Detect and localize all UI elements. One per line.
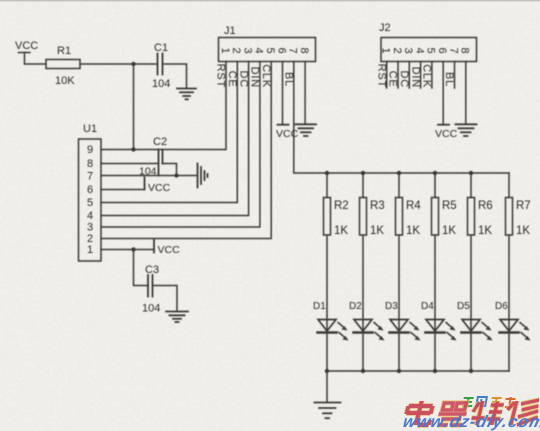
svg-text:9: 9 <box>87 144 93 156</box>
svg-text:C2: C2 <box>153 136 167 148</box>
ground (U1 pin 7, right-facing) <box>198 164 208 188</box>
watermark logo (bottom right) <box>401 397 540 431</box>
resistor R2 <box>324 173 349 237</box>
wire J2 pin 2 stub <box>397 62 399 89</box>
svg-text:5: 5 <box>425 47 437 53</box>
power VCC (J1 pin 6) <box>276 125 299 140</box>
svg-text:R7: R7 <box>516 200 531 212</box>
LED D4 <box>421 235 457 371</box>
svg-text:D1: D1 <box>313 301 326 312</box>
svg-text:CLK: CLK <box>421 64 433 88</box>
wire bottom rail to ground <box>326 371 328 402</box>
node C2/ground junction <box>174 173 178 177</box>
svg-text:4: 4 <box>87 210 93 222</box>
svg-text:104: 104 <box>152 78 170 90</box>
svg-text:1: 1 <box>219 47 231 53</box>
svg-text:8: 8 <box>459 47 471 53</box>
svg-text:R1: R1 <box>57 45 71 57</box>
svg-text:4: 4 <box>253 47 265 53</box>
node LED rail junctions <box>325 171 473 175</box>
LED D6 <box>495 235 531 371</box>
svg-text:R4: R4 <box>406 200 421 212</box>
svg-text:D2: D2 <box>349 301 362 312</box>
svg-text:VCC: VCC <box>15 40 38 52</box>
svg-text:VCC: VCC <box>158 244 181 256</box>
resistor R1 <box>46 45 80 87</box>
resistor R3 <box>360 173 385 237</box>
svg-text:DIN: DIN <box>249 67 261 88</box>
wire U1 pin 7 to ground <box>101 175 198 177</box>
svg-text:3: 3 <box>402 47 414 53</box>
wire J2.8 to ground <box>465 62 467 125</box>
wire C2 jog to U1 pin 7 line <box>163 164 177 176</box>
svg-text:R3: R3 <box>370 200 385 212</box>
wire J2.6 to VCC <box>442 62 444 125</box>
wire J1.4 DIN down to U1 pin 3 <box>101 62 260 228</box>
LED D5 <box>457 235 493 371</box>
wire U1 pin 1 to VCC <box>101 249 154 251</box>
wire J1.1 RST down to U1 pin 9 <box>101 62 226 150</box>
svg-text:R2: R2 <box>334 200 349 212</box>
connector J2 <box>375 22 476 88</box>
LED D3 <box>385 235 421 371</box>
resistor R5 <box>432 173 457 237</box>
svg-text:104: 104 <box>142 303 160 315</box>
svg-text:D6: D6 <box>495 301 508 312</box>
wire J2 pin 1 stub <box>386 62 388 89</box>
svg-text:3: 3 <box>241 47 253 53</box>
svg-text:5: 5 <box>87 197 93 209</box>
svg-text:6: 6 <box>436 47 448 53</box>
svg-text:DC: DC <box>398 71 410 89</box>
wire R1 to C1 <box>80 63 158 65</box>
wire U1 pin 1 down to C3 <box>134 250 149 286</box>
svg-text:1K: 1K <box>516 225 530 237</box>
svg-text:J1: J1 <box>224 25 236 37</box>
svg-text:BL: BL <box>283 72 295 87</box>
svg-text:CLK: CLK <box>260 64 272 88</box>
watermark small colored characters <box>462 397 516 407</box>
wire VCC to R1 <box>25 63 47 65</box>
svg-text:DC: DC <box>237 71 249 89</box>
resistor R4 <box>396 173 422 237</box>
svg-text:J2: J2 <box>379 22 391 34</box>
svg-text:6: 6 <box>275 47 287 53</box>
svg-text:CE: CE <box>387 71 399 88</box>
svg-text:1: 1 <box>380 47 392 53</box>
svg-text:D5: D5 <box>457 301 470 312</box>
ground (C3) <box>166 312 188 323</box>
svg-text:CE: CE <box>226 71 238 88</box>
wire J1.2 CE down to U1 pin 5 <box>101 62 237 203</box>
svg-text:2: 2 <box>391 47 403 53</box>
wire junction down to U1 pin 9 <box>133 64 135 150</box>
wire U1 pin 8 <box>101 163 159 165</box>
power VCC (U1 pin 1) <box>154 240 180 256</box>
IC header U1 <box>79 123 102 261</box>
wire J2 pin 4 stub <box>420 62 422 89</box>
connector J1 <box>215 25 316 88</box>
node R1/C1 junction <box>131 62 135 66</box>
wire J1.3 DC down to U1 pin 4 <box>101 62 249 216</box>
power VCC (top-left) <box>15 40 38 64</box>
wire C1 to ground <box>163 64 187 88</box>
svg-text:C1: C1 <box>154 42 168 54</box>
node bottom rail junctions <box>325 369 473 373</box>
svg-text:6: 6 <box>87 184 93 196</box>
wire J2 pin 7 stub <box>454 62 456 89</box>
svg-text:1K: 1K <box>370 225 384 237</box>
wire LED bottom rail <box>327 370 509 372</box>
svg-text:D3: D3 <box>385 301 398 312</box>
wire J2 pin 5 stub <box>431 62 433 89</box>
svg-text:7: 7 <box>447 47 459 53</box>
wire J2 pin 3 stub <box>408 62 410 89</box>
LED D1 <box>313 235 349 371</box>
wire C3 to ground <box>153 286 178 312</box>
svg-text:4: 4 <box>413 47 425 53</box>
resistor R7 <box>506 173 531 237</box>
svg-text:VCC: VCC <box>276 128 299 140</box>
capacitor C1 <box>152 42 170 90</box>
ground (J1 pin 8) <box>296 124 317 136</box>
svg-text:R5: R5 <box>442 200 457 212</box>
ground (C1) <box>177 89 196 100</box>
svg-text:RST: RST <box>215 64 227 88</box>
svg-text:1: 1 <box>87 244 93 256</box>
svg-text:2: 2 <box>230 47 242 53</box>
node U1 pin 1 junction <box>131 247 135 251</box>
svg-text:www.dz-diy.com: www.dz-diy.com <box>401 412 540 431</box>
svg-text:1K: 1K <box>478 225 492 237</box>
svg-text:1K: 1K <box>442 225 456 237</box>
wire J1.5 CLK down to U1 pin 2 <box>101 62 271 239</box>
svg-text:VCC: VCC <box>148 182 171 194</box>
svg-text:5: 5 <box>264 47 276 53</box>
svg-text:8: 8 <box>87 158 93 170</box>
watermark big red characters <box>404 400 540 425</box>
wire J1.8 to ground <box>304 62 306 125</box>
power VCC (J2 pin 6) <box>435 125 458 140</box>
capacitor C3 <box>142 264 160 315</box>
ground (J2 pin 8) <box>456 124 477 136</box>
wire J1.6 to VCC <box>282 62 284 125</box>
svg-text:7: 7 <box>87 171 93 183</box>
power VCC (U1 pin 6) <box>145 178 171 195</box>
svg-text:7: 7 <box>287 47 299 53</box>
svg-text:3: 3 <box>87 222 93 234</box>
svg-text:R6: R6 <box>478 200 493 212</box>
svg-text:BL: BL <box>443 72 455 87</box>
resistor R6 <box>468 173 493 237</box>
node U1 pin 9 junction <box>131 147 135 151</box>
svg-text:RST: RST <box>375 64 387 88</box>
capacitor C2 <box>139 136 167 178</box>
svg-text:U1: U1 <box>83 123 97 135</box>
svg-text:1K: 1K <box>334 225 348 237</box>
ground (LED return) <box>315 403 341 419</box>
svg-text:VCC: VCC <box>435 128 458 140</box>
watermark url text <box>401 412 540 431</box>
LED D2 <box>349 235 385 371</box>
svg-text:10K: 10K <box>55 75 75 87</box>
svg-text:D4: D4 <box>421 301 434 312</box>
wire U1 pin 6 to VCC <box>101 189 145 191</box>
svg-text:DIN: DIN <box>409 67 421 88</box>
svg-text:1K: 1K <box>406 225 420 237</box>
svg-text:8: 8 <box>298 47 310 53</box>
wire J1.7 BL down to LED rail <box>294 62 509 174</box>
